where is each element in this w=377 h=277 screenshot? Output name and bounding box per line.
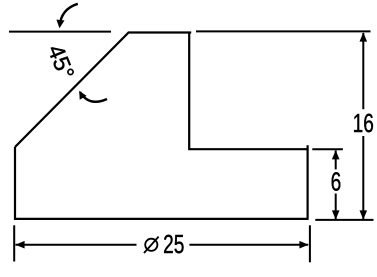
extension line bottom-right vertical (dia25) xyxy=(309,225,311,262)
dimension line 16 xyxy=(362,33,364,109)
label 25 xyxy=(163,231,184,259)
label 45 deg xyxy=(43,41,80,83)
svg-text:6: 6 xyxy=(331,168,342,196)
label 16 xyxy=(353,109,374,137)
label 6 xyxy=(331,168,342,196)
dimension line 6 xyxy=(335,151,337,170)
arrowhead 6 bottom xyxy=(332,210,340,219)
extension line bottom-right (16/6 dims) xyxy=(315,219,373,221)
curved leader arrow to chamfer face xyxy=(80,92,107,102)
curved leader arrow to top face xyxy=(60,4,78,26)
diameter symbol xyxy=(145,239,157,251)
svg-text:45°: 45° xyxy=(43,41,80,83)
arrowhead 16 top xyxy=(360,32,368,41)
svg-text:25: 25 xyxy=(163,231,184,259)
dimension line dia25 xyxy=(16,244,137,246)
extension line top-right (16 dim) xyxy=(196,30,371,32)
arrowhead 6 top xyxy=(332,150,340,159)
extension line top-left (45 deg face) xyxy=(9,31,111,33)
svg-text:16: 16 xyxy=(353,109,374,137)
extension line bottom-left (dia25) xyxy=(13,225,15,261)
arrowhead dia25 right xyxy=(299,241,308,249)
part outline xyxy=(15,32,309,219)
arrowhead dia25 left xyxy=(15,241,24,249)
extension line step (6 dim) xyxy=(312,148,343,150)
arrowhead 16 bottom xyxy=(360,210,368,219)
